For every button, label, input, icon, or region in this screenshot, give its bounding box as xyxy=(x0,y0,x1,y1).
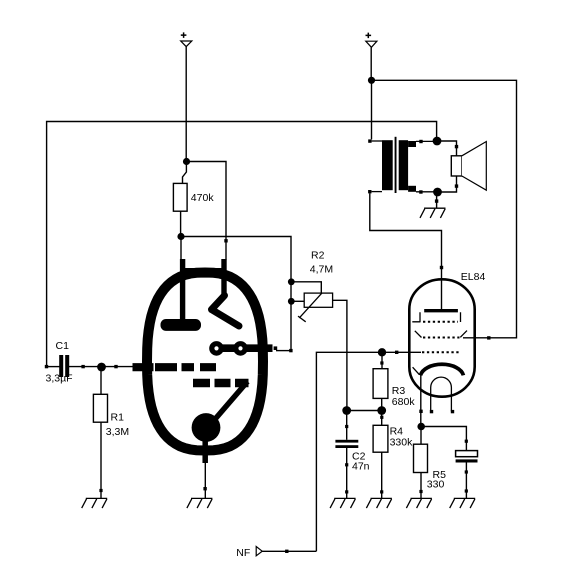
node speaker bottom xyxy=(433,188,442,197)
resistor R3 xyxy=(373,369,415,408)
wire tube1 plate lead top xyxy=(180,237,182,260)
pin square R3 top xyxy=(380,361,383,364)
wire R1 bottom xyxy=(100,422,102,498)
svg-text:47n: 47n xyxy=(352,461,370,473)
pin square heater right xyxy=(451,410,454,413)
node R2 left xyxy=(288,298,295,305)
EL84 cathode arc xyxy=(421,364,464,375)
ground C2 xyxy=(330,498,356,508)
wire supply to transformer primary xyxy=(371,80,373,139)
pin square primary bottom xyxy=(368,190,371,193)
wire secondary top lead xyxy=(416,140,433,142)
wire primary bottom to EL84 anode xyxy=(370,193,442,309)
wire C1 left xyxy=(47,366,60,368)
wire primary bottom lead xyxy=(372,191,382,193)
pin square C2 ground xyxy=(345,490,348,493)
pin square tube1 g2 top xyxy=(224,239,227,242)
pin square R4 ground xyxy=(380,490,383,493)
EL84 grid1 ticks xyxy=(415,331,467,338)
pin square NF xyxy=(285,550,288,553)
tube V1 anode stub xyxy=(221,344,273,352)
power +V right xyxy=(366,33,377,48)
ground tube V1 xyxy=(187,498,213,508)
tube V1 ring right xyxy=(236,344,245,353)
tube V1 cathode dot xyxy=(192,413,221,442)
wire R2 left xyxy=(291,300,304,302)
wire tube V1 cathode to ground xyxy=(204,461,206,498)
node EL84 g1 xyxy=(378,348,386,356)
wire top-left rail xyxy=(47,122,437,368)
pin square transformer ground xyxy=(435,199,438,202)
wire primary top lead xyxy=(372,140,382,142)
EL84 heater xyxy=(431,377,452,411)
resistor 470k xyxy=(173,183,214,211)
EL84 cathode tick xyxy=(413,367,420,374)
resistor R5 xyxy=(414,444,447,490)
secondary winding bar xyxy=(399,140,408,190)
svg-text:470k: 470k xyxy=(191,192,215,204)
tube EL84 envelope xyxy=(409,279,474,396)
svg-text:R2: R2 xyxy=(311,250,325,262)
wire supply to 470k xyxy=(183,162,187,184)
pin square heater left xyxy=(430,410,433,413)
wire supply to EL84 screen xyxy=(372,80,517,338)
tube V1 screen hook xyxy=(212,296,240,327)
svg-text:EL84: EL84 xyxy=(461,271,486,283)
pin square C3 bottom xyxy=(465,470,468,473)
wire speaker top xyxy=(437,141,457,156)
transformer T1 xyxy=(382,137,416,193)
tube V1 cathode lead xyxy=(202,440,208,463)
wire g1 node to R3 xyxy=(381,352,383,368)
EL84 plate bar xyxy=(424,309,458,312)
wire node link xyxy=(347,410,382,412)
wire to screen-grid drop xyxy=(187,162,227,241)
node anode xyxy=(177,233,184,240)
tube V1 plate bar xyxy=(161,319,202,331)
node grid xyxy=(97,363,106,372)
node speaker top xyxy=(433,137,442,146)
node C2 top xyxy=(342,406,351,415)
capacitor C3 electrolytic xyxy=(456,451,478,463)
pin square secondary top xyxy=(419,140,422,143)
core line xyxy=(395,137,397,193)
pin square C1 right xyxy=(81,365,84,368)
resistor R4 xyxy=(373,425,413,452)
tube V1 grid dashes row2 xyxy=(193,379,249,387)
tube V1 ring left xyxy=(212,344,221,353)
pin square EL84 g2 xyxy=(487,336,490,339)
node cathode xyxy=(417,423,425,431)
wire transformer ground xyxy=(436,192,438,208)
svg-text:3,3µF: 3,3µF xyxy=(46,373,73,385)
wire C2 bottom xyxy=(346,448,348,498)
wire right supply drop xyxy=(370,47,372,80)
node right supply xyxy=(368,77,375,84)
tube V1 top cap line xyxy=(185,268,226,271)
ground R5 xyxy=(406,498,432,508)
wire cathode to R5 xyxy=(420,427,422,445)
wire R2 wiper feed xyxy=(291,282,321,293)
pin square rail end xyxy=(45,365,48,368)
wire anode rail to R2 xyxy=(181,237,291,351)
tube V1 grid dashes row1 xyxy=(133,363,217,371)
pin square R1 ground xyxy=(99,489,102,492)
pin square C2 top xyxy=(345,425,348,428)
capacitor C1 xyxy=(46,340,73,385)
wire R1 top xyxy=(100,367,102,394)
node R3/R4 xyxy=(377,406,386,415)
wire R4 bottom xyxy=(381,452,383,498)
svg-text:NF: NF xyxy=(236,547,250,559)
pin square speaker top xyxy=(455,145,458,148)
wire R2 right drop xyxy=(333,300,347,410)
tube V1 plate lead xyxy=(180,259,185,322)
wire 470k bottom xyxy=(180,211,182,236)
svg-text:3,3M: 3,3M xyxy=(106,426,129,438)
EL84 screen ticks xyxy=(412,312,460,322)
wire NF riser and g1 line xyxy=(316,352,382,551)
node R2 top xyxy=(288,278,295,285)
pin square V1 cathode ground xyxy=(203,487,206,490)
secondary tab top xyxy=(408,141,416,147)
wire C3 bottom xyxy=(465,463,467,499)
wire anode to tube (pin) xyxy=(276,350,291,352)
wire R3 bottom xyxy=(381,398,383,425)
wire EL84 cathode xyxy=(420,375,422,427)
tube V1 envelope xyxy=(147,273,263,451)
svg-text:330: 330 xyxy=(427,479,445,491)
wire tube1 g2 lead top xyxy=(225,241,227,260)
svg-text:C1: C1 xyxy=(56,340,70,352)
ground R4 xyxy=(366,498,392,508)
capacitor C2 xyxy=(335,440,369,473)
ground R1 xyxy=(82,498,108,508)
node left supply xyxy=(183,158,190,165)
pin square grid lead xyxy=(114,365,117,368)
ground transformer xyxy=(420,208,446,218)
pin square primary top xyxy=(368,139,371,142)
pin square C2 bottom xyxy=(345,463,348,466)
wire NF xyxy=(262,550,316,552)
wire C2 top xyxy=(346,411,348,440)
pin square R5 ground xyxy=(419,490,422,493)
wire g1 into tube xyxy=(382,351,421,353)
wire C1 right to grid xyxy=(69,366,133,368)
wire cathode to C3 xyxy=(421,427,466,451)
pin square R4 top xyxy=(380,416,383,419)
speaker LS xyxy=(451,142,486,191)
pin square EL84 anode xyxy=(440,266,443,269)
primary winding bar xyxy=(382,140,393,190)
resistor R1 xyxy=(93,394,129,438)
svg-text:330k: 330k xyxy=(390,436,414,448)
EL84 grid3 dots xyxy=(422,351,461,353)
EL84 screen dots xyxy=(423,321,458,323)
tube V1 screen lead xyxy=(221,259,226,296)
secondary tab bottom xyxy=(408,186,416,192)
tube V1 cathode diagonal xyxy=(210,382,248,426)
wire R5 bottom xyxy=(420,473,422,499)
pin square EL84 cathode xyxy=(419,410,422,413)
wire speaker bottom xyxy=(438,176,457,192)
wire secondary bottom lead xyxy=(416,191,434,193)
pin square C3 top xyxy=(465,440,468,443)
pin square g1 xyxy=(395,351,398,354)
svg-text:680k: 680k xyxy=(392,396,416,408)
trimmer R2 xyxy=(298,250,333,322)
svg-text:R1: R1 xyxy=(111,411,125,423)
svg-text:4,7M: 4,7M xyxy=(310,264,333,276)
pin square C3 ground xyxy=(465,489,468,492)
EL84 grid1 dots xyxy=(423,337,460,339)
pin square anode wire end xyxy=(289,349,292,352)
wire left supply drop xyxy=(185,47,187,162)
pin square tube anode xyxy=(274,346,278,350)
input NF connector xyxy=(236,547,262,560)
pin square speaker bottom xyxy=(455,184,458,187)
pin square secondary bottom xyxy=(419,190,422,193)
ground C3 xyxy=(450,498,476,508)
power +V left xyxy=(181,32,192,46)
